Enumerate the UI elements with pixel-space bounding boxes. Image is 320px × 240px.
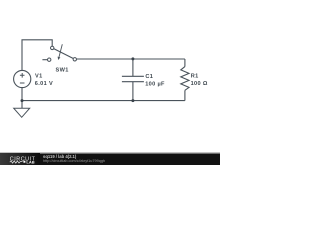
svg-text:C1: C1	[145, 74, 153, 80]
svg-text:100 Ω: 100 Ω	[191, 81, 208, 87]
wire ground stub	[21, 101, 23, 109]
svg-text:http://circuitlab.com/c4rkryt1: http://circuitlab.com/c4rkryt1u799qgh	[43, 159, 105, 163]
wire C1 top lead	[132, 59, 134, 76]
wire C1 bottom lead	[132, 82, 134, 101]
svg-text:6.01 V: 6.01 V	[35, 81, 53, 87]
wire V1 top to top-left rail to switch feed	[22, 40, 52, 71]
V1 polarity marks	[20, 73, 25, 83]
node C1 top junction	[131, 57, 134, 60]
wire V1 bottom lead	[21, 88, 23, 101]
svg-text:V1: V1	[35, 73, 43, 79]
SW1 blade	[52, 48, 75, 59]
C1 bottom plate	[122, 81, 144, 83]
node V1/ground junction	[21, 99, 24, 102]
svg-text:LAB: LAB	[26, 160, 34, 165]
wire R1 top lead	[184, 59, 186, 67]
SW1 closed throw terminal	[73, 58, 76, 61]
R1 zigzag body	[181, 67, 189, 91]
watermark logo	[10, 156, 36, 164]
wire top-right rail	[76, 58, 185, 60]
watermark bar	[0, 152, 220, 165]
wire SW1 left stub	[42, 59, 47, 61]
voltage source V1	[14, 70, 53, 87]
SW1 open throw terminal	[48, 58, 51, 61]
C1 top plate	[122, 75, 144, 77]
capacitor C1	[122, 74, 165, 87]
wire bottom rail	[22, 100, 185, 102]
resistor R1	[181, 67, 208, 91]
SW1 common terminal	[51, 46, 54, 49]
node C1 bottom junction	[131, 99, 134, 102]
SW1 actuation arrow	[59, 44, 62, 57]
V1 body circle	[14, 70, 31, 87]
svg-text:R1: R1	[191, 74, 199, 80]
switch SW1	[48, 44, 77, 73]
ground	[14, 108, 30, 117]
svg-text:100 µF: 100 µF	[145, 82, 165, 88]
svg-text:SW1: SW1	[56, 67, 69, 73]
wire R1 bottom lead	[184, 90, 186, 100]
